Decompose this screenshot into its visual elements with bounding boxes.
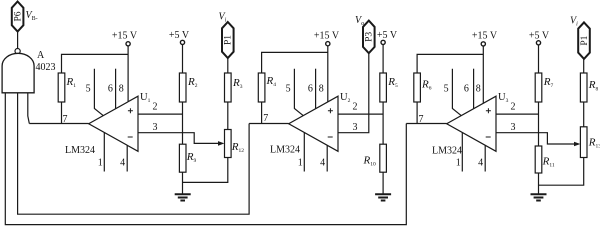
- wire +15V rail stage2: [262, 52, 328, 73]
- connector P6: [12, 2, 24, 32]
- svg-text:7: 7: [419, 114, 424, 125]
- wire U3 output node: [406, 123, 446, 125]
- pin 4 stub U3: [484, 145, 486, 171]
- svg-text:6: 6: [308, 84, 313, 95]
- resistor R4: [258, 73, 265, 102]
- connector P1 stage3: [578, 22, 590, 59]
- wire R8 to R13: [583, 102, 585, 127]
- svg-text:6: 6: [464, 84, 469, 95]
- svg-text:R5: R5: [387, 76, 398, 89]
- svg-text:+5 V: +5 V: [377, 30, 398, 41]
- svg-text:R1: R1: [66, 76, 77, 89]
- resistor R6: [414, 73, 421, 102]
- op-amp U2 minus sign: [328, 136, 333, 138]
- svg-text:LM324: LM324: [432, 146, 462, 157]
- potentiometer R13: [580, 127, 587, 158]
- NAND gate A 4023 bubble: [15, 49, 20, 54]
- op-amp U1 plus sign: [128, 108, 133, 113]
- svg-text:2: 2: [353, 102, 358, 113]
- pin 1 stub U1: [103, 133, 105, 172]
- op-amp U1: [89, 96, 138, 151]
- svg-text:3: 3: [153, 122, 158, 133]
- svg-text:4: 4: [320, 157, 325, 168]
- svg-text:1: 1: [456, 157, 461, 168]
- svg-text:R10: R10: [362, 154, 375, 167]
- svg-text:+15 V: +15 V: [314, 30, 340, 41]
- resistor R8: [580, 73, 587, 102]
- svg-text:4023: 4023: [36, 62, 56, 73]
- svg-text:R11: R11: [542, 156, 555, 169]
- wire R7 to R11: [538, 102, 540, 146]
- pin 1 stub U2: [303, 133, 305, 172]
- wire R2 to R9: [182, 102, 184, 144]
- arrow to R12 wiper: [218, 141, 224, 146]
- wire P1 to R8: [583, 59, 585, 73]
- wire R6 to output node: [416, 102, 418, 124]
- ground stage1: [175, 194, 191, 200]
- wire +5V to R7: [538, 45, 540, 73]
- svg-text:R6: R6: [421, 79, 432, 92]
- svg-text:Vi: Vi: [570, 16, 578, 28]
- svg-text:R2: R2: [187, 76, 198, 89]
- resistor R1: [58, 73, 65, 102]
- svg-text:1: 1: [98, 157, 103, 168]
- svg-text:R7: R7: [543, 76, 554, 89]
- pin 4 stub U1: [126, 145, 128, 171]
- svg-text:+5 V: +5 V: [529, 30, 550, 41]
- op-amp U3 minus sign: [486, 136, 491, 138]
- +5V terminal stage1: [180, 40, 184, 44]
- +5V terminal stage2: [381, 40, 385, 44]
- op-amp U3: [447, 96, 496, 151]
- wire gate input 3 to U1 output: [28, 93, 30, 124]
- wire R13 to ground node: [539, 158, 584, 186]
- svg-text:+15 V: +15 V: [472, 30, 498, 41]
- svg-text:2: 2: [153, 102, 158, 113]
- wire U2 output node: [249, 123, 289, 125]
- wire U1 output node: [29, 123, 88, 125]
- resistor R10: [380, 144, 387, 172]
- svg-text:+5 V: +5 V: [169, 30, 190, 41]
- wire R12 to ground node: [183, 158, 228, 183]
- connector P3: [363, 21, 375, 54]
- svg-text:4: 4: [478, 157, 483, 168]
- wire R3 to R12: [227, 102, 229, 130]
- op-amp U3 plus sign: [486, 108, 491, 113]
- wire R5 to R10: [382, 102, 384, 144]
- svg-text:7: 7: [263, 113, 268, 124]
- wire P6 to gate bubble: [17, 32, 19, 49]
- +5V terminal stage3: [536, 41, 540, 45]
- wire pin3 U2 to P3: [338, 53, 369, 133]
- svg-text:P6: P6: [14, 11, 24, 21]
- wire +5V to R5: [382, 44, 384, 73]
- resistor R5: [380, 73, 387, 102]
- op-amp U2 plus sign: [328, 108, 333, 113]
- wire +15V to pin8 U2: [327, 46, 329, 102]
- svg-text:5: 5: [286, 84, 291, 95]
- wire gate input 1 to U3 output (bottom long route): [5, 93, 406, 225]
- NAND gate A 4023 body: [2, 53, 34, 92]
- ground stage2: [375, 194, 391, 200]
- svg-text:+15 V: +15 V: [112, 30, 138, 41]
- svg-text:R13: R13: [588, 136, 600, 149]
- potentiometer R12: [225, 130, 232, 158]
- svg-text:R12: R12: [231, 141, 244, 154]
- wire R10 to ground: [382, 172, 384, 194]
- +15V terminal stage2: [326, 42, 330, 46]
- wire +15V to pin8 U3: [482, 46, 484, 103]
- resistor R11: [535, 146, 542, 173]
- svg-text:4: 4: [120, 157, 125, 168]
- svg-text:7: 7: [63, 114, 68, 125]
- pin 6 stub U2: [315, 69, 317, 109]
- pin 5 stub U1: [94, 69, 103, 116]
- wire R1 to output node: [61, 102, 63, 124]
- wire +15V rail stage3: [417, 54, 483, 73]
- pin 5 stub U3: [452, 69, 461, 116]
- wire +5V to R2: [182, 44, 184, 73]
- wire pin3 U1 to R12 wiper: [138, 133, 218, 144]
- arrow to R13 wiper: [574, 142, 580, 147]
- pin 5 stub U2: [294, 69, 303, 116]
- svg-text:VB-: VB-: [26, 10, 38, 22]
- svg-text:5: 5: [444, 84, 449, 95]
- ground stage3: [531, 194, 547, 200]
- svg-text:A: A: [37, 50, 45, 61]
- svg-text:5: 5: [86, 84, 91, 95]
- svg-text:R8: R8: [588, 79, 599, 92]
- wire pin2 U1 to R2/R9 node: [138, 113, 183, 115]
- svg-text:8: 8: [119, 84, 124, 95]
- wire +15V to pin8 U1: [127, 46, 129, 102]
- svg-text:3: 3: [511, 122, 516, 133]
- wire pin3 U3 to R13 wiper: [496, 133, 574, 144]
- svg-text:Vi: Vi: [219, 12, 227, 24]
- resistor R7: [535, 73, 542, 102]
- op-amp U1 minus sign: [128, 136, 133, 138]
- wire gate input 2 to U2 output (bottom route): [18, 93, 250, 214]
- svg-text:U1: U1: [140, 92, 151, 104]
- op-amp U2: [289, 96, 338, 151]
- svg-text:R9: R9: [186, 151, 197, 164]
- svg-text:2: 2: [511, 102, 516, 113]
- svg-text:U3: U3: [498, 92, 509, 104]
- svg-text:8: 8: [319, 84, 324, 95]
- wire R11 to ground: [538, 173, 540, 194]
- resistor R2: [179, 73, 186, 102]
- svg-text:Vo: Vo: [355, 15, 364, 27]
- resistor R9: [179, 144, 186, 172]
- pin 6 stub U3: [473, 69, 475, 109]
- wire P1 to R3: [227, 58, 229, 73]
- pin 1 stub U3: [461, 133, 463, 172]
- svg-text:1: 1: [298, 157, 303, 168]
- wire R4 to output node: [261, 102, 263, 124]
- svg-text:P1: P1: [580, 35, 590, 45]
- wire pin2 U3 to R7/R11 node: [496, 113, 539, 115]
- +15V terminal stage1: [126, 42, 130, 46]
- pin 4 stub U2: [326, 145, 328, 171]
- connector P1 stage1: [222, 22, 234, 58]
- svg-text:LM324: LM324: [270, 145, 300, 156]
- svg-text:LM324: LM324: [65, 145, 95, 156]
- svg-text:R3: R3: [232, 77, 243, 90]
- svg-text:P1: P1: [224, 35, 234, 45]
- wire pin2 U2 to R5/R10 node: [338, 113, 383, 115]
- +15V terminal stage3: [481, 42, 485, 46]
- wire R9 to ground: [182, 172, 184, 194]
- svg-text:U2: U2: [340, 92, 351, 104]
- svg-text:P3: P3: [365, 32, 375, 42]
- pin 6 stub U1: [115, 69, 117, 109]
- svg-text:8: 8: [476, 84, 481, 95]
- svg-text:R4: R4: [266, 75, 277, 88]
- resistor R3: [225, 73, 232, 102]
- svg-text:3: 3: [353, 122, 358, 133]
- wire +15V rail stage1: [62, 54, 129, 73]
- svg-text:6: 6: [108, 84, 113, 95]
